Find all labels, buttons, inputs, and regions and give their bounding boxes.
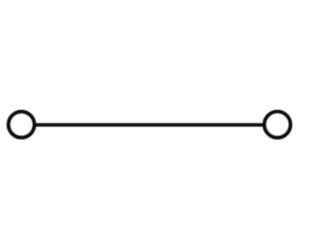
terminal 2 (right connection point): [264, 112, 290, 138]
wire: [33, 123, 265, 127]
terminal 1 (left connection point): [8, 112, 34, 138]
